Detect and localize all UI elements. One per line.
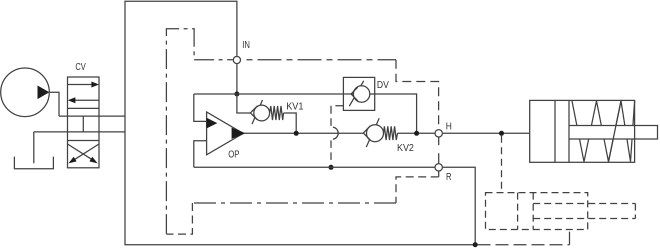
cylinder rod (569, 126, 658, 140)
wire pump outlet to P-line (49, 92, 59, 116)
junction KV1 to line B (294, 131, 299, 136)
junction pilot / R line (329, 165, 334, 170)
manifold boundary top run to corner (247, 59, 397, 61)
op intensifier OP inputs (194, 94, 207, 121)
pilot line DV (dashed) (331, 106, 343, 126)
cylinder spring front stroke (609, 101, 622, 162)
manifold boundary (dash-dot) left side (166, 29, 232, 234)
check valve KV1 (252, 100, 263, 124)
svg-text:CV: CV (75, 62, 86, 73)
cylinder body (530, 100, 635, 162)
check valve KV2 (366, 118, 379, 147)
cylinder piston (555, 100, 569, 162)
junction bottom return (473, 242, 478, 247)
svg-text:H: H (446, 122, 452, 133)
valve CV flow arrow left (75, 99, 99, 101)
phantom cylinder body (dashed) (486, 193, 588, 230)
wire P-line under valve CV (59, 115, 125, 117)
wire IN to line A (236, 64, 238, 94)
wire tank line under valve CV (34, 131, 125, 133)
svg-text:IN: IN (242, 40, 250, 51)
node IN (233, 56, 240, 63)
valve CV crossed arrows (68, 144, 94, 160)
wire tank riser (33, 132, 35, 163)
manifold boundary below R (438, 172, 440, 177)
wire line B (OP output) (244, 132, 364, 134)
valve CV body (68, 77, 100, 168)
node R (435, 164, 442, 171)
dashed return to phantom cylinder (478, 244, 570, 246)
node H (435, 130, 442, 137)
wire KV1 branch (237, 94, 251, 113)
valve DV poppet (349, 81, 363, 106)
wire H to cylinder (443, 132, 530, 134)
phantom cylinder rod (533, 204, 635, 219)
junction line A drop to line B (414, 131, 419, 136)
wire R line (194, 166, 435, 168)
svg-text:KV1: KV1 (286, 102, 304, 113)
junction IN / line A (234, 92, 239, 97)
valve CV port link (82, 116, 84, 132)
wire R drop to bottom return (443, 167, 475, 244)
valve CV position divider upper (68, 107, 100, 109)
valve DV box (343, 77, 374, 110)
pump (1, 68, 50, 117)
svg-text:KV2: KV2 (397, 143, 414, 154)
phantom cylinder piston (518, 193, 534, 230)
op intensifier OP triangle (207, 112, 244, 155)
junction H line / phantom drop (499, 131, 504, 136)
manifold boundary bottom-left step (166, 203, 192, 234)
wire return loop: IN top-left-bottom (125, 1, 475, 245)
svg-text:DV: DV (377, 80, 389, 91)
manifold boundary link H-R (438, 138, 440, 164)
tank (14, 157, 53, 169)
manifold boundary right upper step (396, 60, 439, 129)
wire line A (194, 94, 417, 133)
svg-text:OP: OP (228, 149, 240, 160)
pilot line hop over line B (333, 127, 338, 139)
manifold boundary bottom run (192, 202, 396, 204)
cylinder spring (572, 101, 635, 162)
valve CV flow arrow right (68, 84, 93, 86)
svg-text:R: R (446, 172, 452, 183)
pilot drop to phantom cylinder (dashed) (501, 136, 503, 193)
valve CV position divider lower (68, 140, 100, 142)
